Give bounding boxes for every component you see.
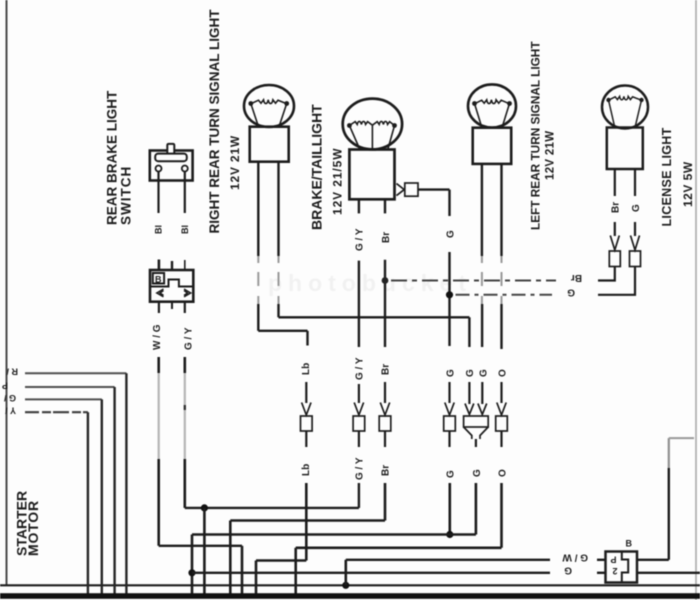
wire O down to elbow: [500, 483, 503, 548]
svg-text:G: G: [465, 369, 476, 377]
wire Br stub above bullet: [384, 382, 386, 403]
wire Br dashed to license (watermark band): [391, 280, 556, 282]
svg-text:G: G: [446, 230, 457, 238]
svg-text:W / G: W / G: [152, 324, 163, 350]
wire G to license elbow: [598, 267, 635, 295]
wire faded segment in watermark band: [257, 256, 259, 304]
wire G/Y down to bullet: [358, 261, 360, 347]
node junction G with license line: [446, 291, 453, 298]
wire G/Y below bullet: [358, 431, 360, 447]
wire Bl right from switch: [184, 172, 186, 214]
connector bullet Br (license): [609, 236, 620, 267]
wire G/Y stub above bullet: [358, 384, 360, 403]
wire O horizontal: [296, 546, 502, 549]
wire G stub above bullet: [448, 382, 450, 403]
wire starter 4: [25, 412, 88, 594]
wire Lb down: [305, 483, 308, 561]
wire elbow to right edge: [669, 437, 694, 439]
wire Br down to elbow: [384, 483, 387, 521]
wire G vertical upper: [448, 190, 450, 216]
label: LEFT REAR TURN SIGNAL LIGHT 12V 21W: [529, 41, 557, 230]
svg-text:G: G: [446, 369, 457, 377]
wire W/G horizontal: [159, 545, 242, 547]
wire starter 3: [25, 399, 102, 594]
wire starter 1: [25, 373, 126, 594]
svg-text:BRAKE/TAILLIGHT: BRAKE/TAILLIGHT: [309, 104, 325, 230]
svg-text:Bl: Bl: [154, 225, 164, 234]
wire G to lower connector: [192, 572, 550, 574]
wire G horizontal collector: [192, 533, 476, 535]
wire G/Y from taillight: [358, 199, 360, 213]
wire stub into connector middle: [171, 261, 173, 270]
svg-text:Br: Br: [611, 202, 622, 213]
wire ground bus (bottom): [0, 593, 700, 599]
wire stub below connector right: [184, 302, 186, 313]
node junction Br with license line: [382, 277, 389, 284]
wire Lb below bullet: [305, 431, 307, 447]
wire from right turn bulb left pin: [258, 162, 307, 346]
lamp right rear turn signal bulb: [244, 85, 294, 162]
svg-text:G / Y: G / Y: [184, 327, 195, 350]
svg-text:G: G: [446, 470, 457, 478]
svg-text:Br: Br: [381, 364, 392, 375]
svg-text:O: O: [498, 369, 509, 377]
wire Bl left from switch: [157, 172, 159, 214]
svg-text:Br: Br: [381, 232, 392, 243]
wire Lb horizontal: [256, 559, 306, 562]
wire G/Y down to elbow: [358, 483, 360, 508]
wire below double bullet: [475, 439, 477, 447]
svg-text:G: G: [472, 469, 483, 477]
connector B (4P) upper: [150, 270, 193, 302]
wire from left turn bulb right pin: [500, 164, 502, 349]
lamp license light bulb: [602, 86, 648, 170]
connector bullet O: [496, 403, 508, 432]
switch S1 rear brake light switch: [150, 144, 193, 181]
node junction G to connector branch: [188, 569, 195, 576]
wire from connector pin1 right side: [637, 559, 669, 561]
wire Br down to bullet: [384, 260, 386, 347]
svg-text:Lb: Lb: [301, 363, 312, 375]
wire from side terminal to G drop: [418, 188, 450, 190]
label: RIGHT REAR TURN SIGNAL LIGHT 12V 21W: [207, 9, 242, 234]
svg-text:Y /: Y /: [5, 406, 16, 416]
wire from right turn bulb right pin: [279, 162, 470, 347]
wire Br down to bus: [229, 521, 232, 595]
svg-text:Bl: Bl: [180, 225, 190, 234]
wire stub below connector middle: [171, 303, 173, 309]
wire stub to Br bullet: [614, 222, 616, 236]
wire starter 2: [25, 387, 115, 594]
wire O stub above bullet: [500, 382, 502, 403]
wire Lb down to bus: [255, 561, 258, 595]
wire stub to G bullet: [634, 222, 636, 236]
wire W/G down to bus: [241, 546, 244, 594]
label: STARTER MOTOR: [14, 491, 42, 556]
svg-text:Br: Br: [571, 272, 582, 283]
svg-text:LEFT REAR TURN SIGNAL LIGHT: LEFT REAR TURN SIGNAL LIGHT: [529, 41, 543, 230]
wire G dashed to license (watermark band): [456, 294, 553, 296]
wire from connector pin2 to right edge: [637, 572, 700, 574]
connector bullet Lb: [301, 403, 313, 432]
svg-text:Lb: Lb: [301, 464, 312, 476]
svg-text:2: 2: [612, 566, 617, 576]
svg-text:G: G: [564, 565, 572, 576]
connector double bullet (2 into 1): [464, 404, 489, 440]
svg-text:MOTOR: MOTOR: [25, 500, 41, 556]
wire G/Y horizontal: [185, 507, 359, 509]
wire Br from taillight: [384, 199, 386, 213]
wire Br horizontal: [230, 519, 385, 522]
connector bullet Br: [379, 403, 391, 432]
wire G/Y branch down to bus: [203, 508, 206, 594]
wire G main drop: [191, 535, 194, 595]
node junction G/W branch: [342, 582, 349, 589]
svg-text:photobucket: photobucket: [268, 270, 472, 296]
wire Br from license bulb: [614, 169, 616, 196]
label: LICENSE LIGHT 12V 5W: [660, 127, 695, 226]
wire Br to license elbow: [598, 267, 615, 281]
svg-text:G /: G /: [3, 393, 16, 403]
connector bullet G/Y: [353, 403, 365, 432]
svg-text:LICENSE LIGHT: LICENSE LIGHT: [660, 127, 674, 226]
wire G from license bulb: [634, 169, 636, 196]
svg-text:RIGHT REAR TURN SIGNAL LIGHT: RIGHT REAR TURN SIGNAL LIGHT: [207, 9, 222, 234]
svg-text:O: O: [498, 469, 509, 477]
wire W/G vertical: [157, 357, 160, 546]
wire stub into connector right: [184, 260, 186, 270]
connector bullet G: [444, 403, 456, 432]
wire riser to upper right: [668, 438, 670, 560]
svg-text:G: G: [567, 287, 575, 298]
wire G/Y vertical from connector: [184, 357, 187, 508]
connector bullet G (license): [630, 236, 641, 267]
wire G/W into connector pin 1: [597, 559, 606, 561]
svg-text:12V 21W: 12V 21W: [545, 131, 557, 180]
wire from left turn bulb left pin: [481, 164, 484, 347]
wire G merged down: [475, 483, 478, 535]
svg-text:P: P: [2, 381, 8, 391]
wire G into connector pin 2: [597, 572, 606, 574]
wire faded segment in watermark band: [481, 256, 483, 304]
wire stub into connector left: [158, 260, 161, 271]
svg-text:G / Y: G / Y: [355, 457, 366, 480]
wire G/W bottom line: [0, 584, 700, 586]
wire stub below connector left: [158, 302, 160, 313]
svg-text:12V 21/5W: 12V 21/5W: [331, 148, 345, 215]
svg-text:REAR BRAKE LIGHT: REAR BRAKE LIGHT: [105, 90, 120, 225]
svg-text:G: G: [631, 204, 642, 212]
wire faded segment in watermark band: [501, 256, 503, 304]
node junction G/Y branch: [201, 504, 208, 511]
wire Lb stub above bullet: [305, 382, 307, 403]
svg-text:G / Y: G / Y: [355, 228, 366, 251]
svg-text:12V 5W: 12V 5W: [681, 161, 695, 207]
wire O down to bus: [294, 548, 297, 594]
svg-text:SWITCH: SWITCH: [119, 166, 134, 225]
wire G down to junction: [448, 483, 451, 535]
wire stub to double bullet left: [468, 382, 470, 404]
wire O below bullet: [500, 431, 502, 447]
svg-text:G / Y: G / Y: [355, 357, 366, 380]
svg-text:R /: R /: [6, 367, 18, 377]
wire G below bullet: [448, 431, 450, 447]
svg-text:Br: Br: [381, 465, 392, 476]
node junction G on bus line: [446, 531, 453, 538]
svg-text:B: B: [626, 539, 633, 549]
wire faded segment in watermark band: [278, 256, 280, 304]
lamp brake/taillight bulb (dual filament): [343, 99, 402, 200]
svg-text:P: P: [610, 555, 616, 565]
wire stub to double bullet right: [481, 382, 483, 404]
wire G/W riser: [344, 560, 347, 586]
svg-text:B: B: [155, 275, 162, 285]
svg-text:12V 21W: 12V 21W: [228, 135, 242, 190]
svg-text:G: G: [479, 369, 490, 377]
connector bullet pair on taillight side terminal: [397, 183, 419, 196]
label: REAR BRAKE LIGHT SWITCH: [105, 90, 134, 225]
label: BRAKE/TAILLIGHT 12V 21/5W: [309, 104, 345, 230]
wire Br below bullet: [384, 431, 386, 447]
wire G/W horizontal to connector: [346, 559, 550, 561]
connector B (2P) lower: [606, 552, 638, 583]
wire G vertical to bullet row: [448, 252, 450, 346]
lamp left rear turn signal bulb: [468, 84, 516, 163]
svg-text:G / W: G / W: [562, 552, 588, 563]
